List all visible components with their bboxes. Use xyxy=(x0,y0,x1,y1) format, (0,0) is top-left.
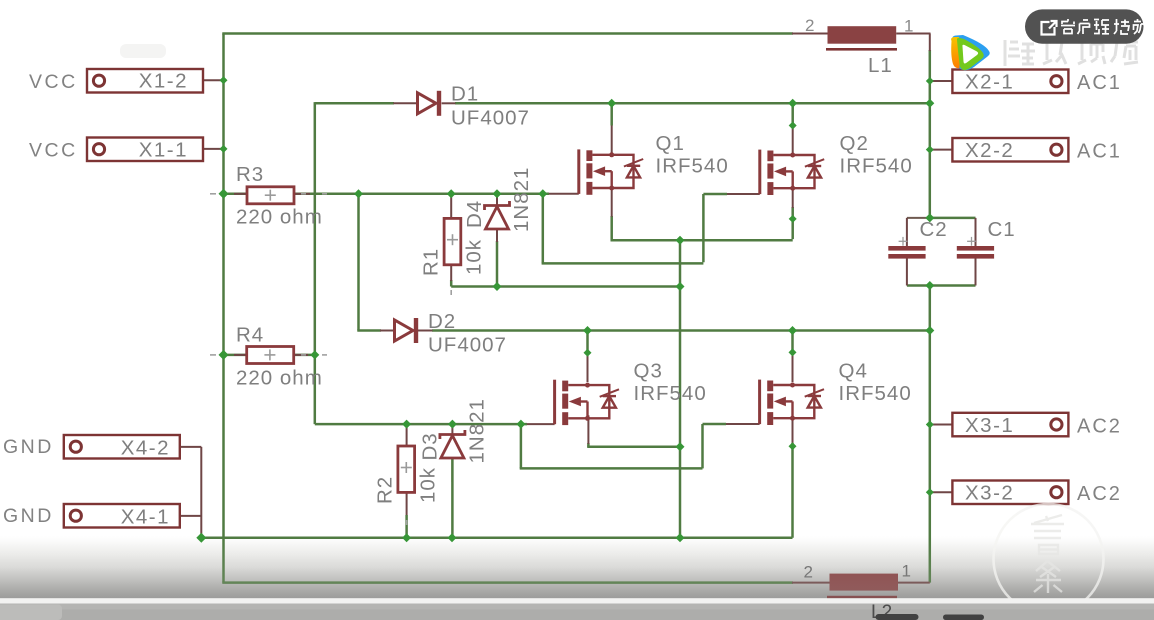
pin Q1 source down xyxy=(611,188,613,217)
svg-text:AC2: AC2 xyxy=(1077,483,1122,505)
pin R3 left/right xyxy=(234,193,247,195)
svg-text:D2: D2 xyxy=(428,310,456,333)
wire: R4 right stub xyxy=(294,354,315,357)
pin D2 left/right xyxy=(380,330,395,332)
pin D3 long bottom xyxy=(451,459,454,538)
wire: D1 row right of diode xyxy=(455,102,930,105)
connector X4-2 xyxy=(64,435,180,459)
pin Q3 drain up xyxy=(587,353,589,382)
resistor R4 xyxy=(247,347,294,364)
button text (hand-drawn CJK strokes) xyxy=(1061,19,1146,34)
node D4 top xyxy=(493,189,502,198)
pin Q4 gate xyxy=(726,423,760,425)
pin Q3 gate xyxy=(527,423,555,425)
node Q3 gate branch xyxy=(516,420,525,429)
pin Q3 source down xyxy=(587,415,589,444)
wire: vertical x=680 sources to GND xyxy=(679,240,682,538)
wire: R3 gate row y=193.8 xyxy=(224,193,550,196)
svg-text:X3-2: X3-2 xyxy=(965,482,1014,505)
node Q3 source row x=680 xyxy=(676,442,685,451)
wire: Q3 drain drop x=587.5 xyxy=(586,331,589,356)
svg-text:L1: L1 xyxy=(868,54,893,77)
node D2 row meets AC2 xyxy=(925,326,934,335)
pin C2 top/bottom xyxy=(906,218,908,246)
pin Q2 drain up xyxy=(792,126,794,155)
pin L1 left/right xyxy=(792,33,828,35)
wire: caps top row right half xyxy=(930,217,976,220)
shi xyxy=(1078,42,1105,64)
wire: GND row y=537.8 xyxy=(201,537,792,540)
svg-text:X1-1: X1-1 xyxy=(139,139,188,162)
ke xyxy=(1061,19,1075,34)
svg-text:Q4: Q4 xyxy=(839,360,868,383)
wire: bottom wire y=583.8 xyxy=(222,581,793,584)
wire: R1/D4 bottom row y=286.5 xyxy=(451,285,680,288)
pin Q1 gate xyxy=(549,193,579,195)
svg-text:VCC: VCC xyxy=(29,140,78,162)
wire: Q4 source drop to GND xyxy=(791,443,794,538)
node caps top xyxy=(925,213,934,222)
node D4 bottom junction xyxy=(493,282,502,291)
wire: AC1 vertical x=929.8 top segment xyxy=(929,50,932,218)
connector X3-2 xyxy=(952,481,1068,505)
transistor Q4 IRF540 xyxy=(760,380,824,425)
svg-text:D3: D3 xyxy=(419,432,442,460)
svg-text:Q2: Q2 xyxy=(840,132,869,155)
node R1D4 row end x=680 xyxy=(676,282,685,291)
svg-text:X1-2: X1-2 xyxy=(139,70,188,93)
node X3-2 junction xyxy=(926,488,934,496)
pin Q1 drain up xyxy=(611,126,613,155)
pin Q2 gate xyxy=(727,193,760,195)
svg-text:Q3: Q3 xyxy=(634,360,663,383)
resistor R3 xyxy=(247,187,294,204)
node sources row x=680 xyxy=(676,236,685,245)
node Q1 gate branch xyxy=(538,189,547,198)
node Q3 drain on D2 row xyxy=(583,326,592,335)
svg-text:GND: GND xyxy=(3,505,54,527)
wire: top wire y=33.5 to L1 xyxy=(222,32,793,35)
pin R2 top/bottom xyxy=(406,425,408,446)
svg-text:2: 2 xyxy=(805,16,814,35)
wire: Q1 source drop x=611.7 xyxy=(610,216,613,240)
pin X1-1 xyxy=(203,148,224,150)
wire: vertical x=702.5 up to Q4 gate xyxy=(701,424,704,468)
wire: crossover row y=263.4 xyxy=(542,262,704,265)
svg-text:R3: R3 xyxy=(236,163,264,186)
pin xyxy=(1111,42,1138,64)
svg-text:R2: R2 xyxy=(374,476,397,504)
capacitor C1 xyxy=(957,246,994,251)
node Q4 drain pin dot xyxy=(789,348,797,356)
connector X2-1 xyxy=(952,70,1068,94)
pin C1 top/bottom xyxy=(975,218,977,246)
transistor Q2 IRF540 xyxy=(760,150,824,195)
inductor L1 xyxy=(828,26,897,44)
svg-text:1N821: 1N821 xyxy=(466,398,489,463)
pin Q4 source down xyxy=(792,415,794,444)
hu xyxy=(1078,20,1090,34)
svg-text:C2: C2 xyxy=(920,218,948,241)
connector X1-2 xyxy=(87,69,203,93)
node R3 left junction xyxy=(219,189,229,199)
svg-text:X4-2: X4-2 xyxy=(121,437,170,460)
small pin tick marks xyxy=(210,194,451,525)
wire: caps bottom row xyxy=(907,284,976,287)
svg-text:220 ohm: 220 ohm xyxy=(236,367,323,390)
resistor R1 (vertical) xyxy=(444,218,461,264)
node D1 row meets AC1 xyxy=(925,99,934,108)
transistor Q1 IRF540 xyxy=(579,149,643,194)
pin R4 left/right xyxy=(234,354,247,356)
svg-text:VCC: VCC xyxy=(29,71,78,93)
node Q1 drain on D1 row xyxy=(607,99,616,108)
pin X1-2 xyxy=(203,79,224,81)
connector X3-1 xyxy=(952,413,1068,437)
zener D4 1N821 xyxy=(485,201,510,229)
node X2-2 junction xyxy=(926,146,934,154)
wire: vertical x=542.8 to crossover row xyxy=(542,194,545,264)
pin R1 top/bottom xyxy=(450,195,452,218)
wire: R1 bottom stub xyxy=(450,280,453,287)
wire: loop row y=468.4 xyxy=(520,467,703,470)
node X1-1 junction xyxy=(220,145,228,153)
faint artifact smudge above X1-2 xyxy=(120,44,166,58)
capacitor C2 xyxy=(888,246,925,251)
svg-text:IRF540: IRF540 xyxy=(656,155,729,178)
wire: X4 vertical bus xyxy=(200,447,202,538)
svg-text:X4-1: X4-1 xyxy=(121,506,170,529)
wire: Q3/Q4 gate row y=424.1 xyxy=(315,423,527,426)
svg-text:X2-2: X2-2 xyxy=(965,139,1014,162)
wire: Q2 source drop x=792.7 xyxy=(791,207,794,239)
svg-text:10k: 10k xyxy=(463,239,486,275)
pin X3-2 xyxy=(930,491,953,493)
pin X4-1 xyxy=(179,515,201,517)
node R1 top xyxy=(447,189,456,198)
wire: vertical x=703.4 up to Q2 gate xyxy=(702,194,705,262)
svg-text:Q1: Q1 xyxy=(656,132,685,155)
node X2-1 junction xyxy=(926,77,934,85)
node Q2 source pin dot xyxy=(789,215,797,223)
svg-text:1: 1 xyxy=(904,17,913,36)
node D2 branch on R3 row xyxy=(354,189,363,198)
node X3-1 junction xyxy=(926,421,934,429)
node Q2 drain pin dot xyxy=(789,122,797,130)
svg-text:X3-1: X3-1 xyxy=(965,414,1014,437)
tencent video logo play icon xyxy=(951,35,990,70)
pin D4 top/bottom xyxy=(496,195,498,206)
svg-text:IRF540: IRF540 xyxy=(634,382,707,405)
connector X1-1 xyxy=(87,138,203,162)
node X4 bus corner xyxy=(196,533,206,543)
node R2 top xyxy=(402,420,411,429)
pin X3-1 xyxy=(930,424,953,426)
node Q2 drain on D1 row xyxy=(788,99,797,108)
duan xyxy=(1094,20,1109,35)
svg-text:X2-1: X2-1 xyxy=(965,71,1014,94)
node Q4 drain on D2 row xyxy=(788,326,797,335)
pin D3 top/bottom xyxy=(451,425,453,435)
inductor L2 xyxy=(830,574,899,591)
pin D1 left/right xyxy=(393,102,417,104)
node Q4 source pin dot xyxy=(789,442,797,450)
svg-text:UF4007: UF4007 xyxy=(428,334,507,357)
svg-text:IRF540: IRF540 xyxy=(839,382,912,405)
connector X4-1 xyxy=(64,504,180,528)
node caps bottom xyxy=(925,281,934,290)
svg-text:IRF540: IRF540 xyxy=(840,155,913,178)
svg-text:1N821: 1N821 xyxy=(510,167,533,232)
wire: main left VCC vertical x=223.5 xyxy=(222,34,225,583)
wire: vertical x=520.9 gate row down xyxy=(520,424,523,468)
svg-text:C1: C1 xyxy=(988,218,1016,241)
svg-text:AC1: AC1 xyxy=(1077,72,1122,94)
pin Q2 source down xyxy=(792,188,794,208)
pin Q4 drain up xyxy=(792,353,794,382)
wire: D1 row y=103.3 xyxy=(315,102,394,105)
pin L2 left/right xyxy=(792,582,830,584)
resistor R2 (vertical) xyxy=(398,446,415,492)
player bottom gradient background xyxy=(0,536,1154,598)
svg-text:AC2: AC2 xyxy=(1077,415,1122,437)
wire: D4 bottom stub xyxy=(496,241,499,287)
node sources vertical on GND xyxy=(676,533,685,542)
wire: Q3 source drop xyxy=(587,443,590,447)
wire: AC2 vertical x=929.8 bottom segment xyxy=(929,286,932,583)
svg-text:D1: D1 xyxy=(451,83,479,106)
svg-text:R1: R1 xyxy=(420,248,443,276)
node R2 bottom on GND xyxy=(402,533,411,542)
node D3 bottom on GND xyxy=(448,533,457,542)
svg-text:UF4007: UF4007 xyxy=(451,107,530,130)
svg-text:D4: D4 xyxy=(463,200,486,228)
svg-text:GND: GND xyxy=(3,436,54,458)
svg-text:10k: 10k xyxy=(417,467,440,503)
bo xyxy=(1114,19,1129,34)
svg-text:220 ohm: 220 ohm xyxy=(236,206,323,229)
wire: sources row y=240.3 xyxy=(611,239,793,242)
node Q3 drain pin dot xyxy=(584,349,592,357)
wire: D2/AC2 row y=330.5 xyxy=(357,329,381,332)
wire: vertical x=358.5 from R3 row to D2 xyxy=(357,194,360,331)
svg-text:R4: R4 xyxy=(236,324,264,347)
wire: caps top row left half xyxy=(907,217,930,219)
connector X2-2 xyxy=(952,138,1068,162)
pin X4-2 and X4 bus xyxy=(179,446,201,448)
wire: Q4 gate stub y=424 xyxy=(703,423,727,426)
wire: vertical x=314.8 D1 anode to Q3 gate row xyxy=(314,102,317,424)
wire: R4 row y=354.9 left stub xyxy=(224,354,248,357)
teng xyxy=(1005,40,1035,66)
node D3 top xyxy=(448,420,457,429)
wire: Q3 source row y=446.8 xyxy=(587,446,680,449)
svg-text:AC1: AC1 xyxy=(1077,141,1122,163)
pin X2-2 xyxy=(930,149,953,151)
diode D1 UF4007 xyxy=(418,91,440,116)
diode D2 UF4007 xyxy=(395,318,417,343)
node X1-2 junction xyxy=(220,76,228,84)
zener D3 1N821 xyxy=(440,430,465,458)
fang xyxy=(1134,19,1147,34)
xun xyxy=(1043,42,1069,64)
wire: Q2 gate stub y=194 xyxy=(703,193,727,196)
wire: Q4 drain drop x=792.5 xyxy=(791,331,794,356)
node R4 right junction xyxy=(310,350,319,359)
transistor Q3 IRF540 xyxy=(555,380,619,425)
pin X2-1 xyxy=(930,80,953,82)
node R4 left junction xyxy=(219,350,229,360)
